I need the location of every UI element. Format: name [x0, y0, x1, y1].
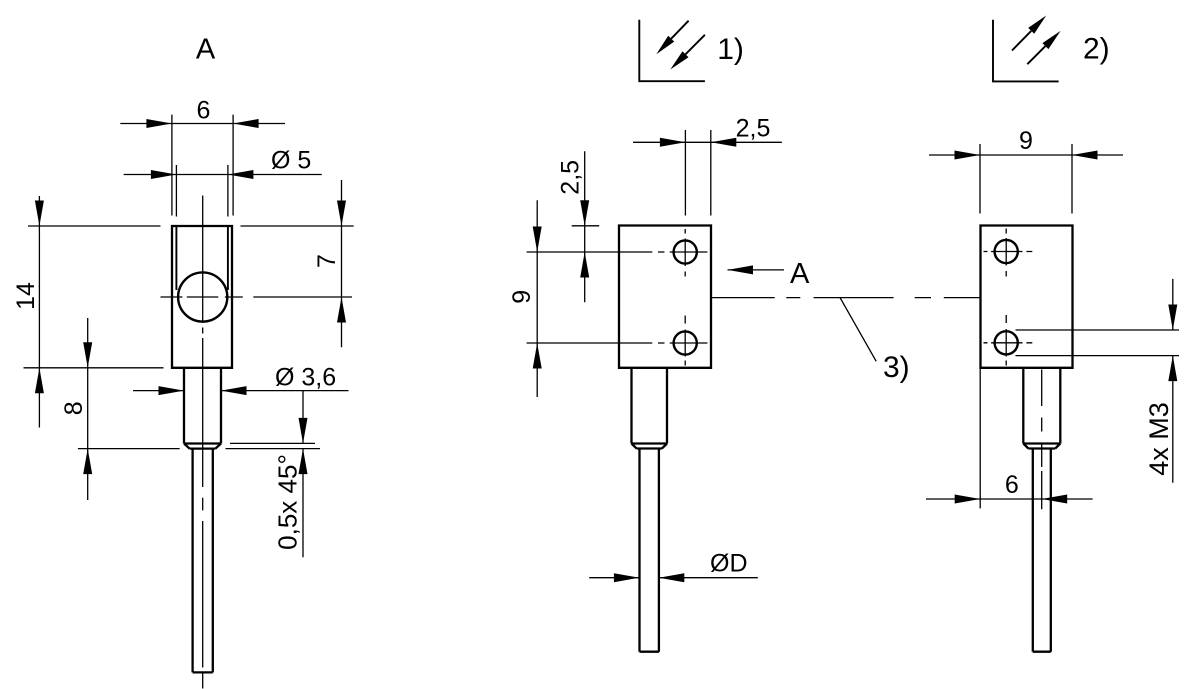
svg-text:Ø 3,6: Ø 3,6: [275, 364, 336, 392]
svg-text:A: A: [790, 258, 810, 290]
svg-text:1): 1): [717, 33, 744, 66]
svg-text:2,5: 2,5: [736, 114, 771, 142]
svg-text:2,5: 2,5: [556, 160, 584, 195]
svg-text:9: 9: [508, 290, 536, 304]
svg-text:6: 6: [1005, 471, 1019, 499]
svg-text:A: A: [196, 33, 216, 65]
svg-text:8: 8: [60, 401, 88, 415]
svg-text:Ø 5: Ø 5: [271, 147, 311, 175]
svg-text:14: 14: [12, 282, 40, 310]
svg-text:3): 3): [883, 351, 910, 384]
svg-text:0,5x 45°: 0,5x 45°: [273, 454, 303, 550]
svg-text:2): 2): [1083, 32, 1110, 65]
svg-text:4x M3: 4x M3: [1144, 402, 1174, 476]
svg-text:6: 6: [197, 97, 211, 125]
svg-text:ØD: ØD: [710, 550, 748, 578]
svg-text:9: 9: [1019, 127, 1033, 155]
svg-text:7: 7: [313, 254, 341, 268]
